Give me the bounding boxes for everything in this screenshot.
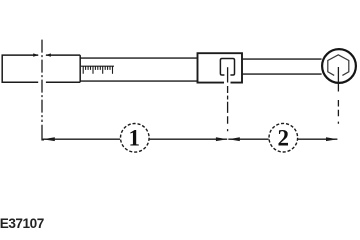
rod bottom line xyxy=(242,73,322,75)
shaft top line xyxy=(80,57,197,59)
centerline (dash-dot) at handle xyxy=(41,40,43,122)
dimension line 1 left segment xyxy=(43,138,120,140)
handle slide arrow left xyxy=(33,53,38,56)
svg-text:1: 1 xyxy=(129,126,141,151)
leader line from square drive xyxy=(227,67,229,82)
svg-text:2: 2 xyxy=(278,126,290,151)
dim2 arrow right xyxy=(326,137,337,141)
dimension line 2 left segment xyxy=(228,138,268,140)
leader line from hex xyxy=(337,67,339,92)
dim2 arrow left xyxy=(228,137,239,141)
rod top line xyxy=(242,58,322,60)
callout circle 1 xyxy=(121,124,150,153)
callout circle 2 xyxy=(269,123,298,152)
ruler ticks xyxy=(83,66,112,74)
dimension line 2 right segment xyxy=(298,138,338,140)
handle outline xyxy=(2,55,80,82)
handle slide arrow right xyxy=(46,53,51,56)
svg-text:E37107: E37107 xyxy=(0,216,44,231)
ball end circle xyxy=(322,49,356,83)
inner square drive xyxy=(220,59,234,76)
hex socket xyxy=(328,55,349,76)
dimension line 1 right segment xyxy=(150,138,228,140)
shaft bottom line xyxy=(80,80,197,82)
dim1 arrow left xyxy=(43,137,55,141)
dim1 arrow right xyxy=(216,137,227,141)
ruler scale line xyxy=(81,65,114,67)
head block xyxy=(198,53,243,82)
